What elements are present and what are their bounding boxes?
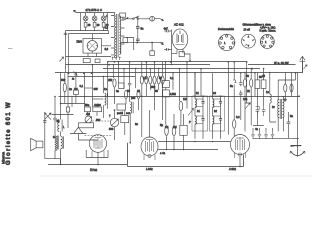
wire IF row lines <box>158 142 231 150</box>
IF verticals <box>195 73 221 139</box>
wire lamp returns <box>86 27 104 31</box>
dial lamp La3 <box>101 13 106 22</box>
tube T1 pin stubs <box>92 151 104 158</box>
fuse box on transformer top <box>120 13 126 17</box>
voltage selector taps <box>121 20 125 44</box>
arrow marker at lamp line end <box>74 10 77 13</box>
svg-text:5µ: 5µ <box>160 123 163 127</box>
IF amp tube T2 <box>141 137 158 158</box>
resistor Rm4 <box>137 90 140 98</box>
lamp panel frame verticals <box>81 13 108 31</box>
wire switch to fuse <box>139 18 150 20</box>
screen bus <box>59 96 301 98</box>
interstage transformer secondary <box>283 100 285 118</box>
extra junction dots <box>54 61 300 167</box>
volume pot arrow <box>188 109 194 116</box>
capacitor Co3 <box>239 90 242 96</box>
resistor Ro1 <box>233 120 236 129</box>
svg-text:L482: L482 <box>146 167 153 171</box>
junction dots on buses <box>68 17 253 74</box>
svg-text:1M: 1M <box>173 125 177 129</box>
resistor Rr2 <box>250 79 253 88</box>
wire left drop from lamp bus <box>65 31 67 73</box>
resistor Rm1 <box>113 79 116 87</box>
wire rectifier pins to rails <box>172 53 191 61</box>
band switch triangle <box>70 127 87 133</box>
svg-text:5µ: 5µ <box>57 119 60 123</box>
mains plug arrows <box>160 19 164 45</box>
svg-text:6,3: 6,3 <box>105 26 109 30</box>
bus line B3 <box>103 68 260 70</box>
wire bottom heater line <box>66 56 112 58</box>
wire fuse to plug <box>155 18 161 20</box>
svg-text:m: m <box>72 78 74 81</box>
tube socket diagram V1 <box>219 34 235 50</box>
resistor box row top left <box>83 59 90 63</box>
resistor R31 under lamp 1 <box>84 22 87 27</box>
IF1 cap a <box>201 99 204 106</box>
dial lamp La2 <box>92 13 97 22</box>
svg-text:0,1: 0,1 <box>80 84 84 88</box>
tube T3 pin stubs <box>235 153 246 159</box>
svg-text:Dr: Dr <box>272 105 275 109</box>
capacitor at anchor <box>291 145 294 147</box>
svg-text:osz: osz <box>126 112 131 115</box>
capacitor C40 mains <box>136 25 140 30</box>
bus line B2 <box>66 64 296 66</box>
svg-text:6,3: 6,3 <box>105 47 109 51</box>
wire lamp bus <box>66 30 109 32</box>
IF2 coil a <box>213 99 214 107</box>
svg-text:25k: 25k <box>108 78 113 82</box>
antenna coupling arrow left <box>60 57 64 62</box>
wire aux L <box>126 38 134 51</box>
wire T3 cathode down <box>239 156 241 167</box>
right block columns <box>245 69 270 95</box>
ganged tuning dashed link lower <box>85 135 113 137</box>
svg-text:padd: padd <box>117 111 123 115</box>
mixer tube T1 <box>89 135 106 153</box>
wire horizontal y88 <box>85 87 93 89</box>
IF2 cap b <box>219 116 222 123</box>
resistor R33 under lamp 3 <box>102 22 105 27</box>
capacitor C51 <box>43 120 47 124</box>
bottom speaker wire <box>45 159 61 165</box>
output stage verticals <box>228 62 255 135</box>
tuner vertical x68 <box>67 73 69 107</box>
bus line B4 <box>55 72 303 74</box>
grid stopper arrow <box>245 103 250 109</box>
tube T2 pin stubs <box>144 155 155 161</box>
svg-text:4n7: 4n7 <box>164 27 169 31</box>
mid cluster: verticals x107-142 <box>108 62 136 96</box>
svg-text:10n: 10n <box>243 97 248 101</box>
wires interstage transformer <box>278 73 295 132</box>
resistor R12 <box>172 126 176 135</box>
light antenna symbol top right <box>299 56 305 61</box>
resistor box Rm2 <box>119 83 124 89</box>
caps row bottom right <box>251 131 254 139</box>
power transformer Tr1 primary winding <box>119 16 120 55</box>
svg-text:AZ 412: AZ 412 <box>174 23 184 27</box>
small arrow right caption <box>304 65 308 69</box>
svg-text:1M: 1M <box>183 97 187 101</box>
resistor Rd3 <box>179 101 183 110</box>
coupling box mid <box>117 104 125 110</box>
resistor R11 <box>165 126 169 135</box>
resistor Ra2 <box>290 84 293 92</box>
resistor box tuner1 <box>66 107 69 112</box>
svg-text:0,5M: 0,5M <box>170 92 176 96</box>
pickup cross arrows <box>45 113 52 120</box>
resistor box Rr4 <box>261 80 266 89</box>
svg-text:200: 200 <box>131 96 136 100</box>
wire top line to lamps <box>77 13 115 17</box>
wire right verticals <box>292 60 303 138</box>
oscillator coil L3 <box>105 93 108 109</box>
capacitor Cq1 <box>256 107 260 116</box>
dial lamp La1 <box>83 13 88 22</box>
electrolytic C50 <box>53 97 57 124</box>
antenna trap arrow <box>74 72 78 76</box>
svg-text:Ü702: Ü702 <box>90 168 98 172</box>
wire T1 bottom loop <box>86 150 108 158</box>
box IF can 2 <box>210 96 225 131</box>
wire caps junction <box>137 20 139 43</box>
svg-text:50n: 50n <box>85 103 90 107</box>
tuning capacitor C2 <box>85 116 92 123</box>
capacitor Cr1 <box>164 30 170 33</box>
ganged tuning dashed link <box>92 120 111 122</box>
resistor box Rd2 <box>162 90 169 97</box>
svg-text:Tr: Tr <box>284 98 286 102</box>
wire light antenna drop <box>301 56 303 73</box>
component box under fuse <box>150 51 155 56</box>
detector column verticals <box>166 62 201 109</box>
IF2 cap a <box>219 99 222 106</box>
svg-text:0.1: 0.1 <box>165 125 169 129</box>
speaker LS1 <box>31 138 43 150</box>
wire drop x68.4 <box>68 34 70 73</box>
wire big bottom loop <box>128 143 244 167</box>
svg-text:0,1: 0,1 <box>170 76 174 80</box>
svg-text:Bodenansicht: Bodenansicht <box>218 27 234 31</box>
resistor Rm3 <box>124 90 127 98</box>
fuse Si1 <box>150 16 155 21</box>
svg-text:50k: 50k <box>61 78 66 82</box>
svg-text:A432: A432 <box>229 167 236 171</box>
volume potentiometer box <box>180 125 187 135</box>
tuner vertical x72 <box>71 96 73 107</box>
capacitor Cr2 <box>164 48 170 51</box>
oscillator coil L4 <box>130 102 133 114</box>
wire horizontal y34 <box>69 33 109 35</box>
capacitor Co2 <box>239 80 242 86</box>
tube socket diagram V2 <box>242 34 256 48</box>
svg-text:2M: 2M <box>74 87 78 91</box>
wire tuner verticals <box>85 65 104 116</box>
faint lower rule <box>40 175 312 177</box>
interstage transformer core <box>280 99 281 119</box>
resistor box tuner2 <box>85 107 91 112</box>
wire speaker to top components <box>44 112 46 159</box>
svg-text:K-geb. Chass.: K-geb. Chass. <box>260 28 277 32</box>
resistor row above T2 <box>142 62 163 76</box>
resistor box Rr3 <box>255 80 260 89</box>
rectifier pin box <box>179 52 184 57</box>
wire right bottom collect <box>245 103 299 138</box>
svg-text:0,3: 0,3 <box>236 115 240 119</box>
interstage transformer primary <box>278 100 280 118</box>
AVC line partial <box>52 114 74 116</box>
svg-text:500: 500 <box>96 118 101 122</box>
wire horizontal y103.4 <box>61 103 85 105</box>
bus line B1 <box>108 61 247 63</box>
svg-text:AM: AM <box>86 112 90 116</box>
capacitor Cm1 <box>128 81 131 88</box>
output transformer core <box>57 136 58 150</box>
capacitor on left drop <box>64 33 67 35</box>
svg-text:1M: 1M <box>143 76 147 80</box>
output tube T3 <box>231 135 250 157</box>
earth anchor symbol <box>290 138 305 156</box>
tuning capacitor C4 <box>110 118 118 126</box>
svg-text:500: 500 <box>109 127 114 131</box>
resistor Ra1 <box>284 84 287 92</box>
bus line B5 partial <box>68 76 135 78</box>
wire EM drop to heater line <box>88 53 97 57</box>
resistor R5 <box>74 90 79 95</box>
mains switch S1 <box>133 16 140 20</box>
padder box Cm2 <box>121 116 129 123</box>
svg-text:Gloriette 601 W: Gloriette 601 W <box>6 101 12 165</box>
power transformer Tr1 core <box>117 14 119 57</box>
left coil L1 <box>60 73 62 120</box>
svg-text:EM4: EM4 <box>77 40 83 44</box>
svg-text:272.575-1 C: 272.575-1 C <box>86 8 103 12</box>
IF2 coil b <box>213 116 214 124</box>
wire transformer secondary left stubs <box>111 16 114 55</box>
box IF can 1 <box>192 96 208 131</box>
tube socket diagram V3 <box>260 35 274 49</box>
tuning indicator tube EM4 <box>87 39 98 53</box>
tuning indicator tube EM4 box <box>83 39 102 54</box>
rectifier tube AZ412 <box>172 29 188 54</box>
wire bottom chassis <box>48 164 127 166</box>
svg-text:10 a5: 10 a5 <box>244 28 251 32</box>
wire lamp panel right drop <box>108 31 110 34</box>
svg-text:a 4n: a 4n <box>160 151 166 155</box>
power transformer Tr1 secondary windings <box>115 16 116 58</box>
capacitor Co1 <box>233 80 237 90</box>
svg-text:50k: 50k <box>151 85 156 89</box>
IF1 coil a <box>195 99 196 107</box>
paper mark left edge <box>8 48 13 50</box>
capacitor C41 mains <box>136 38 140 43</box>
resistor R6 <box>63 83 66 92</box>
capacitor Cq2 <box>262 107 266 116</box>
coil choke right <box>270 94 272 103</box>
svg-text:SW: SW <box>94 87 99 91</box>
wire horizontal y99 <box>92 98 103 100</box>
wire EM tube feeds <box>92 34 111 46</box>
primary tap box <box>123 38 128 43</box>
box tuner3 <box>93 107 102 112</box>
IF1 cap b <box>201 116 204 123</box>
resistor R32 under lamp 2 <box>93 22 96 27</box>
output transformer primary coil <box>61 136 64 148</box>
wire rectifier drop <box>170 30 171 65</box>
tone cap C30 <box>287 119 291 127</box>
resistor box Rd1 <box>162 81 169 88</box>
wire T1 to bottom bus <box>97 158 99 165</box>
wave trap box <box>79 123 94 128</box>
transformer bottom arrows <box>112 57 121 60</box>
svg-text:AM20: AM20 <box>94 103 101 107</box>
svg-text:P: P <box>189 120 191 124</box>
resistor Rr1 <box>243 79 246 88</box>
field winding R40 <box>55 136 57 151</box>
IF can pair closures <box>195 99 221 124</box>
wire primary to mains <box>121 17 164 54</box>
IF1 coil b <box>195 116 196 124</box>
